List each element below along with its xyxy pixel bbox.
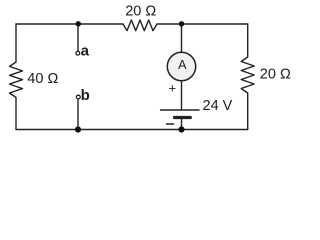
svg-text:24 V: 24 V (203, 98, 233, 114)
svg-text:A: A (178, 58, 187, 72)
svg-text:+: + (169, 81, 177, 96)
svg-text:20 Ω: 20 Ω (125, 4, 156, 20)
svg-text:b: b (81, 87, 90, 104)
svg-text:40 Ω: 40 Ω (27, 71, 58, 87)
svg-text:20 Ω: 20 Ω (260, 66, 291, 82)
svg-text:a: a (81, 43, 90, 60)
